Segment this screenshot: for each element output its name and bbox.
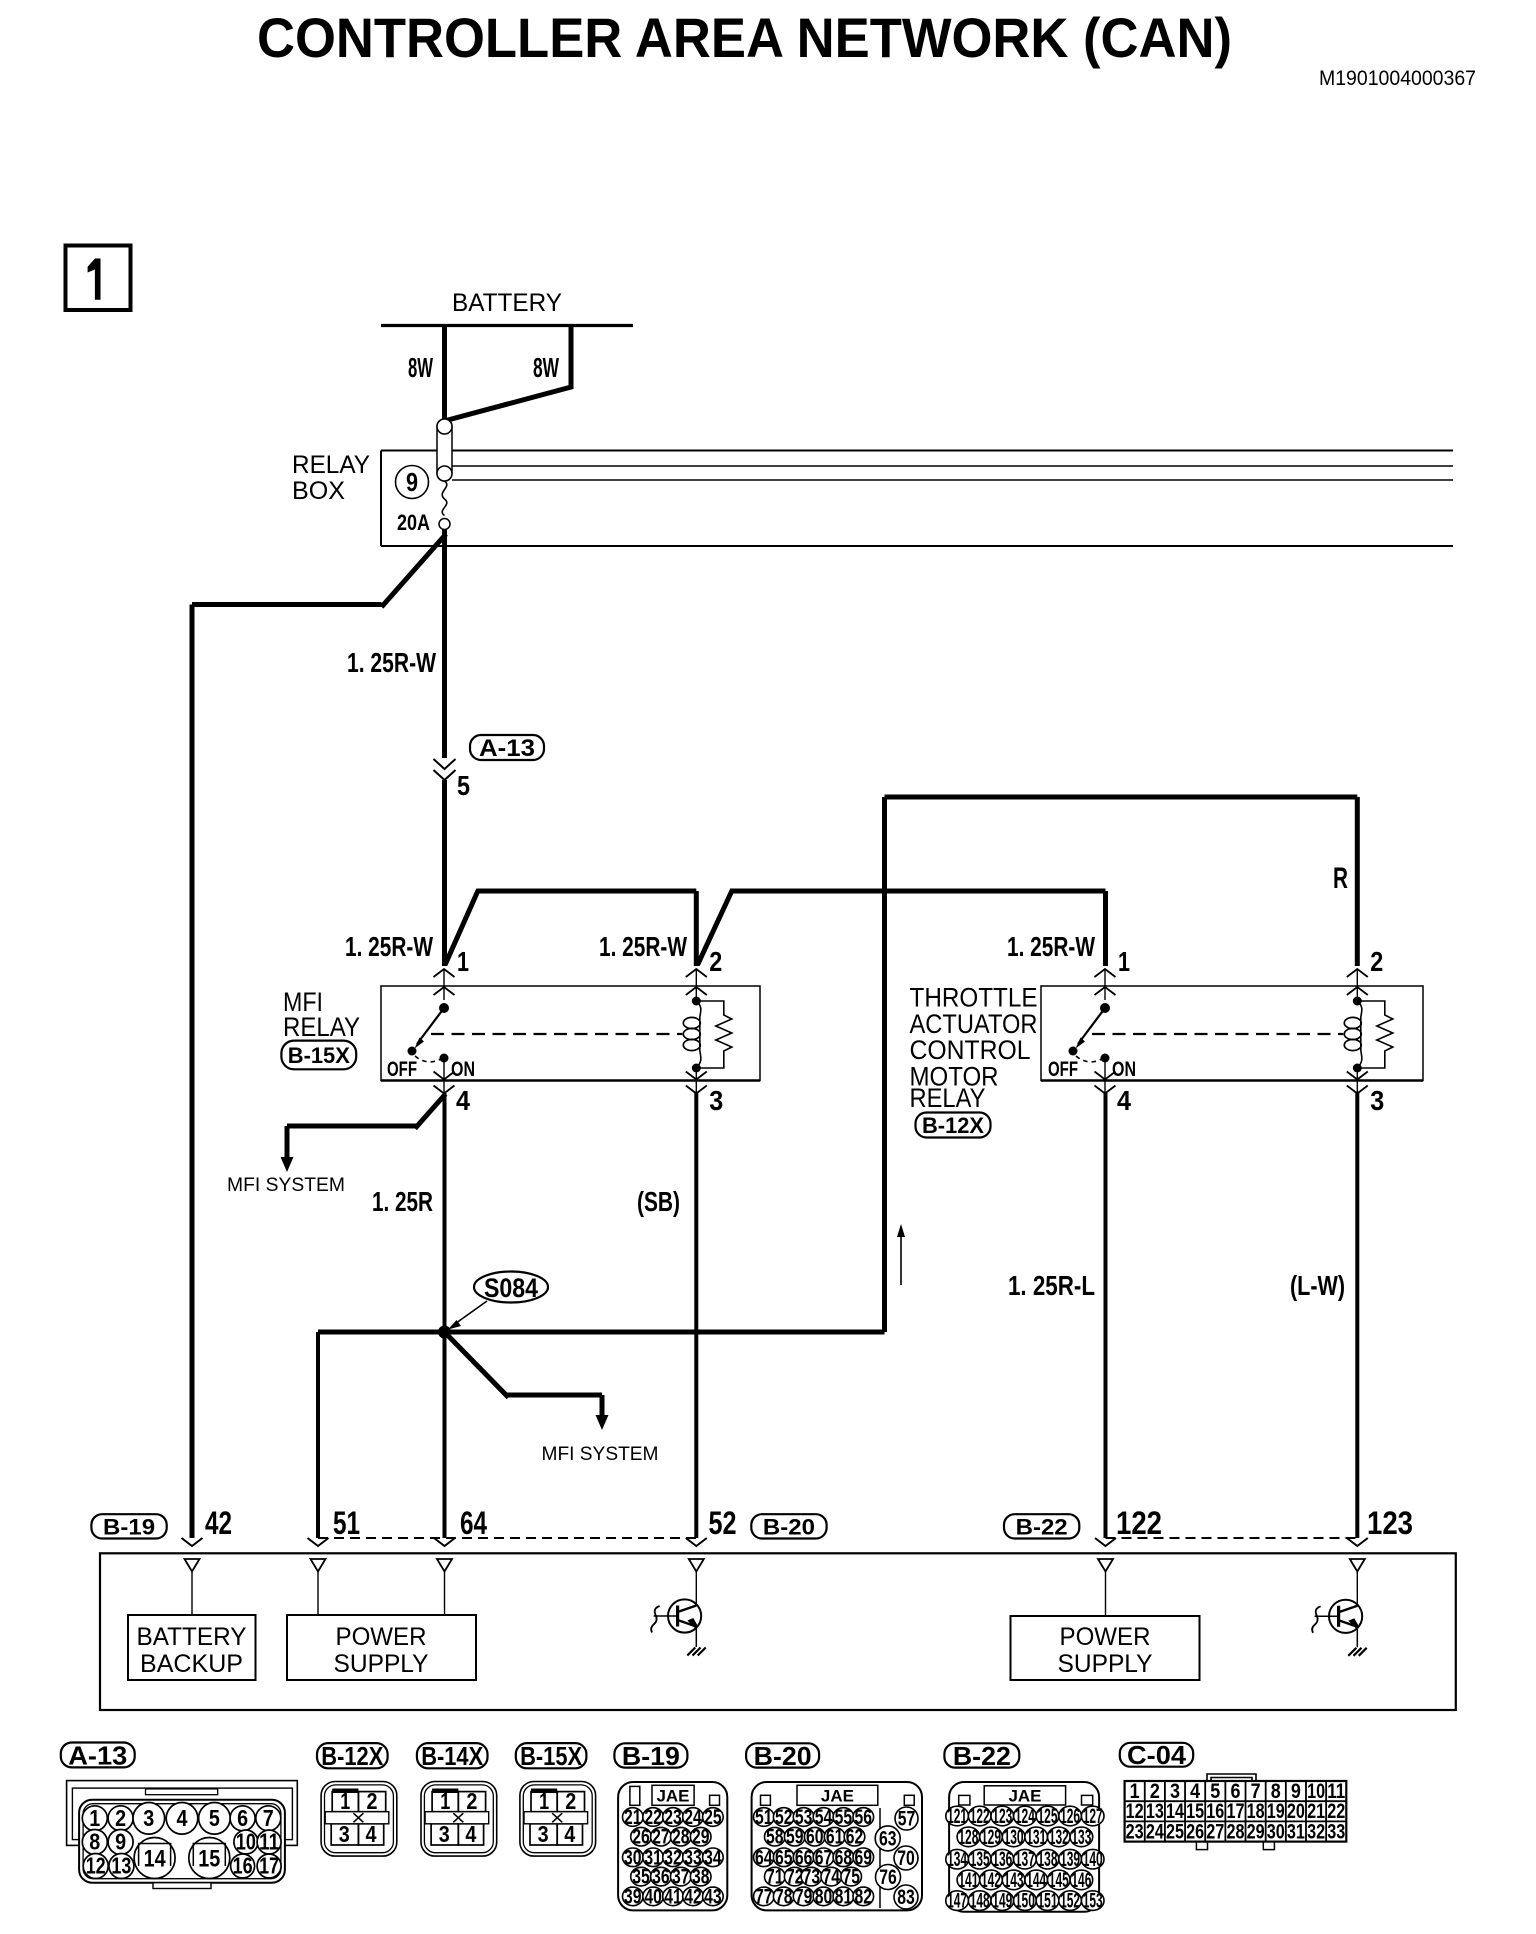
svg-text:1. 25R-W: 1. 25R-W	[599, 931, 687, 962]
svg-text:124: 124	[1015, 1805, 1035, 1828]
svg-text:135: 135	[970, 1848, 990, 1871]
svg-text:77: 77	[755, 1885, 773, 1908]
svg-text:28: 28	[1226, 1820, 1244, 1843]
svg-text:SUPPLY: SUPPLY	[334, 1650, 429, 1678]
svg-text:BOX: BOX	[292, 477, 345, 505]
svg-text:123: 123	[1367, 1505, 1413, 1541]
svg-text:1. 25R-W: 1. 25R-W	[1007, 931, 1095, 962]
svg-text:B-19: B-19	[103, 1514, 155, 1539]
svg-text:13: 13	[111, 1853, 131, 1879]
svg-text:43: 43	[704, 1885, 722, 1908]
svg-text:1: 1	[440, 1788, 450, 1814]
svg-text:80: 80	[815, 1885, 833, 1908]
svg-text:1. 25R-L: 1. 25R-L	[1008, 1270, 1095, 1301]
svg-text:147: 147	[947, 1890, 967, 1913]
svg-text:146: 146	[1071, 1869, 1091, 1892]
svg-text:1: 1	[539, 1788, 549, 1814]
svg-text:78: 78	[775, 1885, 793, 1908]
svg-text:143: 143	[1004, 1869, 1024, 1892]
svg-text:BACKUP: BACKUP	[140, 1650, 243, 1678]
svg-text:2: 2	[565, 1788, 576, 1814]
svg-text:140: 140	[1083, 1848, 1103, 1871]
svg-text:4: 4	[366, 1821, 377, 1847]
svg-text:39: 39	[624, 1885, 642, 1908]
svg-text:125: 125	[1038, 1805, 1058, 1828]
svg-text:148: 148	[970, 1890, 990, 1913]
svg-text:14: 14	[144, 1846, 167, 1873]
svg-text:79: 79	[795, 1885, 813, 1908]
svg-text:59: 59	[786, 1826, 804, 1849]
svg-text:8: 8	[89, 1829, 100, 1855]
svg-text:B-22: B-22	[1016, 1514, 1068, 1539]
svg-text:57: 57	[898, 1808, 916, 1831]
svg-text:JAE: JAE	[821, 1787, 854, 1806]
svg-text:63: 63	[879, 1827, 897, 1850]
svg-text:1. 25R-W: 1. 25R-W	[345, 931, 433, 962]
svg-text:ON: ON	[451, 1058, 475, 1081]
svg-text:136: 136	[992, 1848, 1012, 1871]
svg-text:A-13: A-13	[68, 1740, 127, 1770]
svg-text:122: 122	[970, 1805, 990, 1828]
svg-text:3: 3	[143, 1805, 154, 1831]
svg-text:133: 133	[1071, 1826, 1091, 1849]
svg-text:130: 130	[1004, 1826, 1024, 1849]
svg-text:JAE: JAE	[1009, 1787, 1042, 1806]
svg-text:4: 4	[456, 1085, 470, 1116]
svg-text:51: 51	[333, 1505, 360, 1541]
svg-text:(L-W): (L-W)	[1290, 1270, 1345, 1301]
svg-text:41: 41	[664, 1885, 682, 1908]
svg-text:129: 129	[981, 1826, 1001, 1849]
svg-text:B-14X: B-14X	[421, 1741, 484, 1771]
svg-text:BATTERY: BATTERY	[137, 1623, 247, 1651]
svg-text:S084: S084	[484, 1273, 538, 1303]
svg-text:138: 138	[1038, 1848, 1058, 1871]
svg-text:152: 152	[1060, 1890, 1080, 1913]
svg-text:121: 121	[947, 1805, 967, 1828]
svg-text:5: 5	[209, 1805, 220, 1831]
svg-text:23: 23	[1126, 1820, 1144, 1843]
svg-text:3: 3	[439, 1821, 450, 1847]
svg-text:R: R	[1333, 862, 1348, 895]
svg-text:(SB): (SB)	[637, 1186, 680, 1217]
svg-text:SUPPLY: SUPPLY	[1058, 1650, 1153, 1678]
svg-text:1: 1	[457, 946, 469, 977]
svg-text:29: 29	[1247, 1820, 1265, 1843]
svg-text:B-22: B-22	[953, 1741, 1011, 1771]
svg-text:58: 58	[766, 1826, 784, 1849]
svg-text:27: 27	[652, 1826, 670, 1849]
svg-text:42: 42	[205, 1505, 232, 1541]
svg-text:A-13: A-13	[479, 735, 535, 762]
svg-text:OFF: OFF	[387, 1058, 417, 1081]
svg-text:2: 2	[466, 1788, 477, 1814]
svg-text:4: 4	[1117, 1085, 1131, 1116]
svg-text:B-15X: B-15X	[288, 1043, 350, 1068]
svg-text:52: 52	[709, 1505, 737, 1541]
svg-text:B-20: B-20	[763, 1514, 815, 1539]
svg-text:THROTTLE: THROTTLE	[910, 983, 1038, 1013]
svg-text:15: 15	[198, 1846, 220, 1873]
svg-text:32: 32	[1307, 1820, 1325, 1843]
svg-text:7: 7	[263, 1805, 274, 1831]
svg-text:25: 25	[1166, 1820, 1184, 1843]
svg-text:153: 153	[1083, 1890, 1103, 1913]
svg-text:29: 29	[692, 1826, 710, 1849]
svg-text:132: 132	[1049, 1826, 1069, 1849]
svg-text:3: 3	[339, 1821, 350, 1847]
svg-text:61: 61	[826, 1826, 844, 1849]
svg-text:62: 62	[846, 1826, 864, 1849]
svg-text:8W: 8W	[533, 352, 559, 383]
svg-text:MFI SYSTEM: MFI SYSTEM	[542, 1444, 659, 1465]
svg-text:1: 1	[1118, 946, 1130, 977]
svg-text:126: 126	[1060, 1805, 1080, 1828]
svg-text:3: 3	[709, 1085, 723, 1116]
svg-text:C-04: C-04	[1127, 1740, 1187, 1770]
svg-text:M1901004000367: M1901004000367	[1319, 67, 1476, 90]
svg-text:145: 145	[1049, 1869, 1069, 1892]
svg-text:1. 25R: 1. 25R	[372, 1186, 433, 1217]
svg-text:141: 141	[958, 1869, 978, 1892]
svg-text:149: 149	[992, 1890, 1012, 1913]
svg-text:10: 10	[236, 1829, 256, 1855]
svg-text:16: 16	[233, 1853, 253, 1879]
svg-text:26: 26	[1186, 1820, 1204, 1843]
svg-text:BATTERY: BATTERY	[452, 289, 562, 317]
svg-text:MFI SYSTEM: MFI SYSTEM	[227, 1175, 345, 1196]
svg-text:B-20: B-20	[754, 1741, 812, 1771]
svg-text:134: 134	[947, 1848, 967, 1871]
svg-text:CONTROL: CONTROL	[910, 1035, 1031, 1065]
svg-text:40: 40	[644, 1885, 662, 1908]
svg-text:20A: 20A	[397, 510, 430, 535]
svg-text:3: 3	[538, 1821, 549, 1847]
svg-text:11: 11	[259, 1829, 279, 1855]
svg-text:9: 9	[406, 467, 418, 497]
svg-text:JAE: JAE	[657, 1787, 690, 1806]
svg-text:POWER: POWER	[336, 1623, 427, 1651]
svg-text:76: 76	[879, 1866, 897, 1889]
svg-text:9: 9	[115, 1829, 126, 1855]
svg-text:17: 17	[259, 1853, 279, 1879]
svg-text:2: 2	[367, 1788, 378, 1814]
svg-text:70: 70	[897, 1847, 915, 1870]
svg-text:24: 24	[1146, 1820, 1164, 1843]
svg-text:B-19: B-19	[622, 1741, 680, 1771]
svg-text:150: 150	[1015, 1890, 1035, 1913]
svg-text:122: 122	[1116, 1505, 1162, 1541]
svg-text:1: 1	[89, 1805, 100, 1831]
svg-text:151: 151	[1038, 1890, 1058, 1913]
svg-text:82: 82	[855, 1885, 873, 1908]
svg-text:83: 83	[897, 1886, 915, 1909]
svg-text:POWER: POWER	[1060, 1623, 1151, 1651]
svg-text:26: 26	[632, 1826, 650, 1849]
svg-text:137: 137	[1015, 1848, 1035, 1871]
svg-text:4: 4	[465, 1821, 476, 1847]
svg-text:B-15X: B-15X	[520, 1741, 583, 1771]
svg-text:ON: ON	[1112, 1058, 1136, 1081]
svg-text:2: 2	[115, 1805, 126, 1831]
svg-text:RELAY: RELAY	[910, 1083, 986, 1113]
svg-text:4: 4	[177, 1805, 188, 1831]
svg-text:127: 127	[1083, 1805, 1103, 1828]
svg-text:31: 31	[1287, 1820, 1305, 1843]
svg-text:4: 4	[564, 1821, 575, 1847]
svg-text:1: 1	[340, 1788, 350, 1814]
svg-text:60: 60	[806, 1826, 824, 1849]
svg-text:RELAY: RELAY	[283, 1012, 360, 1042]
svg-text:139: 139	[1060, 1848, 1080, 1871]
svg-text:33: 33	[1327, 1820, 1345, 1843]
svg-text:B-12X: B-12X	[321, 1741, 384, 1771]
svg-text:12: 12	[86, 1853, 106, 1879]
svg-text:142: 142	[981, 1869, 1001, 1892]
svg-text:OFF: OFF	[1048, 1058, 1078, 1081]
svg-text:144: 144	[1026, 1869, 1046, 1892]
svg-text:1. 25R-W: 1. 25R-W	[347, 647, 436, 678]
svg-text:3: 3	[1370, 1085, 1384, 1116]
svg-text:30: 30	[1267, 1820, 1285, 1843]
svg-text:8W: 8W	[408, 352, 433, 383]
svg-text:5: 5	[457, 770, 470, 801]
svg-text:B-12X: B-12X	[922, 1113, 984, 1138]
svg-text:123: 123	[992, 1805, 1012, 1828]
svg-text:81: 81	[835, 1885, 853, 1908]
svg-text:131: 131	[1026, 1826, 1046, 1849]
svg-text:6: 6	[237, 1805, 248, 1831]
svg-text:CONTROLLER AREA NETWORK (CAN): CONTROLLER AREA NETWORK (CAN)	[257, 6, 1232, 69]
svg-text:64: 64	[460, 1505, 487, 1541]
svg-text:2: 2	[709, 946, 722, 977]
svg-text:42: 42	[684, 1885, 702, 1908]
svg-text:28: 28	[672, 1826, 690, 1849]
svg-text:2: 2	[1370, 946, 1383, 977]
svg-text:128: 128	[958, 1826, 978, 1849]
svg-text:RELAY: RELAY	[292, 451, 370, 479]
svg-text:27: 27	[1206, 1820, 1224, 1843]
